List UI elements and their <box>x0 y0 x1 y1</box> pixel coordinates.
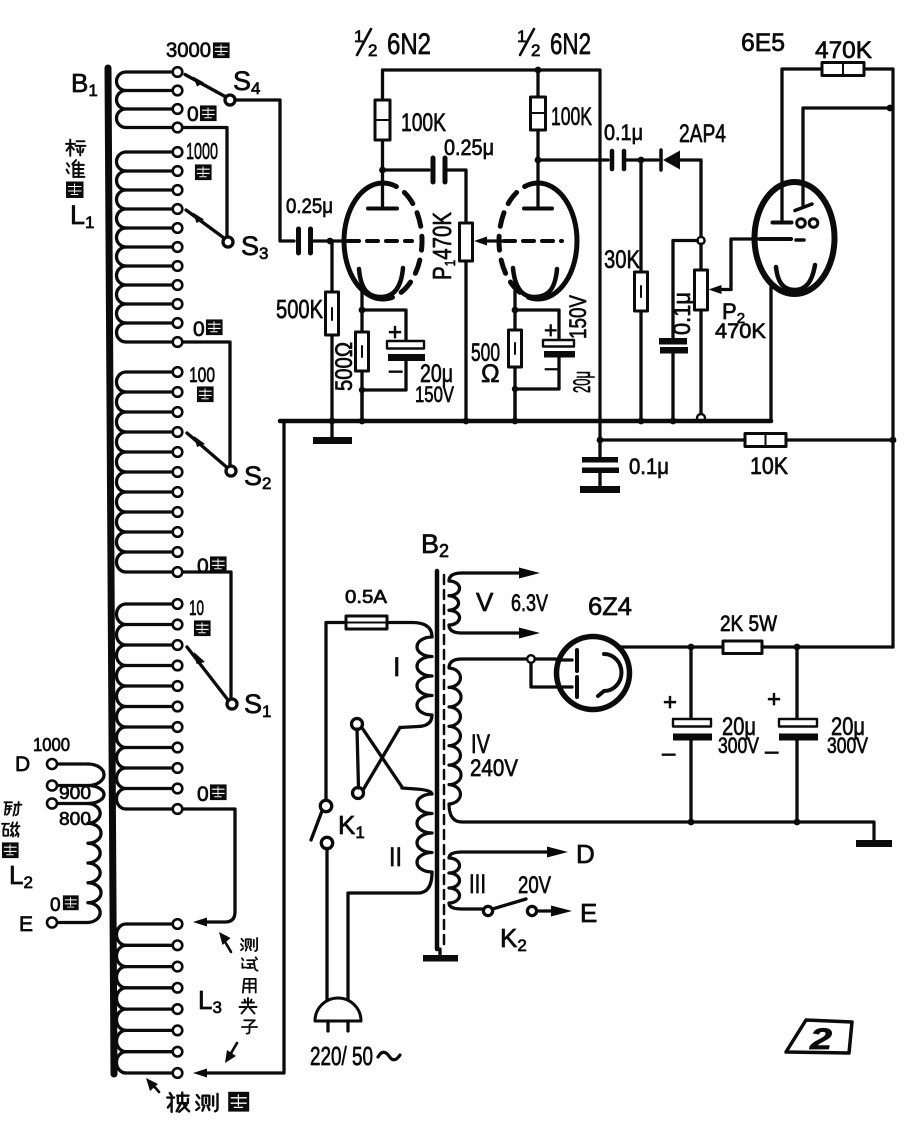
svg-text:0: 0 <box>197 555 209 578</box>
svg-text:I: I <box>393 652 401 682</box>
ground bus <box>280 419 771 424</box>
svg-text:0.25μ: 0.25μ <box>444 135 494 160</box>
resistor 500K grid leak <box>330 241 333 292</box>
voltage selector cross <box>352 719 363 730</box>
6E5 grid dashes <box>760 237 791 241</box>
decoupling node: 10K to B+ <box>600 438 745 441</box>
6E5 ray-control lead <box>803 108 890 205</box>
heater winding V <box>449 573 530 633</box>
capacitor 0.25u input <box>296 229 301 253</box>
svg-text:E: E <box>19 913 33 936</box>
coil L3 under test <box>126 922 173 925</box>
svg-text:6E5: 6E5 <box>741 29 785 57</box>
triode V1 half 6N2 <box>344 183 383 299</box>
test clip arrow lower <box>230 1043 237 1055</box>
resistor 30K <box>639 160 642 272</box>
V2 plate <box>524 207 552 211</box>
fuse 0.5A <box>346 616 387 629</box>
coil-under-test arrow <box>153 1085 159 1092</box>
V1 grid dashes <box>348 239 412 243</box>
svg-text:150V: 150V <box>565 295 592 339</box>
core of standard coil L1 <box>108 68 114 1074</box>
svg-text:6N2: 6N2 <box>550 28 591 61</box>
label excitation coil L2 <box>4 802 21 816</box>
6E5 cathode <box>776 265 815 290</box>
resistor 470K top <box>822 63 864 76</box>
svg-text:500Ω: 500Ω <box>331 342 358 391</box>
svg-text:500K: 500K <box>276 294 323 324</box>
svg-text:3000: 3000 <box>166 39 211 62</box>
svg-text:0.25μ: 0.25μ <box>286 195 333 218</box>
winding III 20V <box>449 852 558 909</box>
B+ rail top <box>383 70 601 440</box>
test clip wire from ground bus to L3 bottom <box>206 421 284 1073</box>
svg-text:0: 0 <box>187 103 199 126</box>
svg-text:100K: 100K <box>551 103 592 131</box>
6Z4 plates <box>557 658 572 661</box>
svg-text:–: – <box>389 357 403 384</box>
wire L1 1000-section end to S2 <box>183 342 230 466</box>
svg-text:1000: 1000 <box>33 735 70 755</box>
6Z4 cathode <box>598 654 621 696</box>
svg-text:2: 2 <box>809 1023 833 1056</box>
test clip arrow upper <box>224 940 231 952</box>
svg-text:0.1μ: 0.1μ <box>669 292 696 335</box>
svg-text:0: 0 <box>193 318 205 341</box>
wire L1 3000-section end to S3 <box>183 128 227 238</box>
label standard coil L1 <box>66 140 85 156</box>
6Z4 cathode lead to filter <box>617 645 691 648</box>
svg-text:+: + <box>767 686 781 713</box>
node after diode <box>697 237 704 244</box>
svg-text:+: + <box>544 317 557 343</box>
coil L1 section 1000-turns <box>126 150 173 153</box>
HT winding IV <box>449 659 874 840</box>
6E5 target electrodes <box>797 219 806 228</box>
node grid V1 <box>327 238 334 245</box>
svg-text:150V: 150V <box>415 382 454 407</box>
svg-text:–: – <box>662 740 676 767</box>
wire S4 to input cap <box>235 100 294 241</box>
capacitor 20u 150V cathode bypass V2 <box>515 310 559 340</box>
diode 2AP4 <box>659 150 663 170</box>
V2 grid dashes <box>504 239 562 243</box>
switch S4 <box>185 75 226 98</box>
svg-text:0: 0 <box>50 895 61 916</box>
svg-text:6N2: 6N2 <box>387 28 431 61</box>
test clip wire from L1 end to L3 top <box>183 809 235 922</box>
svg-text:III: III <box>469 869 486 899</box>
mains plug <box>315 998 361 1021</box>
svg-text:800: 800 <box>59 809 91 829</box>
V2 cathode <box>513 268 557 297</box>
svg-text:+: + <box>663 689 677 716</box>
svg-text:300V: 300V <box>718 733 759 758</box>
capacitor 0.1u coupling <box>538 158 608 161</box>
right B+ rail <box>864 69 893 647</box>
svg-text:0.5A: 0.5A <box>345 587 387 607</box>
coil L1 section 100-turns <box>126 370 173 373</box>
svg-text:E: E <box>580 898 597 928</box>
svg-text:2AP4: 2AP4 <box>679 120 726 148</box>
svg-text:0.1μ: 0.1μ <box>629 454 669 479</box>
svg-text:220/ 50: 220/ 50 <box>310 1041 373 1071</box>
svg-text:6Z4: 6Z4 <box>588 593 632 621</box>
svg-text:300V: 300V <box>827 733 868 758</box>
svg-text:–: – <box>545 354 558 380</box>
svg-text:1000: 1000 <box>186 138 218 164</box>
6E5 plate lead <box>782 69 822 220</box>
resistor 2K 5W <box>691 645 723 648</box>
capacitor 0.1u filter <box>673 241 698 339</box>
svg-text:+: + <box>388 319 402 346</box>
svg-text:2: 2 <box>531 41 540 60</box>
primary winding II <box>348 788 432 999</box>
svg-text:470K: 470K <box>815 37 872 64</box>
coil L1 section 10-turns <box>126 602 173 605</box>
svg-text:2: 2 <box>368 41 377 60</box>
resistor 100K plate V2 <box>536 130 539 160</box>
V1 cathode <box>359 268 403 297</box>
node detector input <box>638 157 645 164</box>
resistor 500 ohm cathode V2 <box>513 310 516 330</box>
svg-text:20μ: 20μ <box>569 371 596 393</box>
resistor 500 ohm cathode V1 <box>360 310 363 332</box>
label test clips vertical <box>241 938 257 951</box>
svg-text:20V: 20V <box>518 872 551 899</box>
svg-text:D: D <box>576 839 595 869</box>
svg-text:0.1μ: 0.1μ <box>604 120 643 145</box>
tube 6E5 <box>755 182 835 294</box>
svg-text:D: D <box>15 753 30 776</box>
potentiometer P1 470K <box>460 223 473 261</box>
switch S2 <box>187 433 227 468</box>
svg-text:II: II <box>389 842 402 872</box>
svg-text:2K 5W: 2K 5W <box>720 611 777 636</box>
svg-text:100K: 100K <box>401 109 446 137</box>
svg-text:10: 10 <box>189 597 204 620</box>
svg-text:100: 100 <box>189 364 215 387</box>
svg-text:240V: 240V <box>470 755 518 782</box>
excitation coil L2 <box>57 762 88 765</box>
capacitor 20u 300V second <box>795 647 798 719</box>
svg-text:Ω: Ω <box>481 360 500 388</box>
capacitor 20u 150V cathode bypass V1 <box>362 310 406 341</box>
ground symbol main <box>330 421 333 438</box>
svg-text:900: 900 <box>59 783 91 803</box>
switch K2 <box>483 906 492 915</box>
svg-text:470K: 470K <box>715 320 766 343</box>
ground symbol PSU <box>856 840 892 847</box>
P2 wiper to 6E5 grid <box>731 239 758 290</box>
capacitor 0.25u interstage <box>383 168 430 171</box>
svg-text:0: 0 <box>197 783 209 806</box>
switch S1 <box>187 647 228 700</box>
transformer B2 core <box>435 571 440 949</box>
capacitor 0.1u decoupling <box>598 440 601 457</box>
primary winding I <box>387 623 432 728</box>
wire IV to 6Z4 plates <box>535 657 556 660</box>
label coil under test <box>167 1093 189 1112</box>
tube 6Z4 <box>557 637 630 710</box>
svg-text:V: V <box>476 587 494 617</box>
V1 plate <box>368 207 397 211</box>
coil L1 section 3000-turns <box>126 70 173 73</box>
svg-text:10K: 10K <box>750 453 788 480</box>
node V1 plate <box>379 167 386 174</box>
triode V2 half 6N2 <box>538 183 577 299</box>
potentiometer P2 470K <box>699 244 702 270</box>
capacitor 20u 300V first <box>689 647 692 719</box>
page number 2 <box>786 1020 852 1053</box>
svg-text:P1470K: P1470K <box>427 211 459 280</box>
wire L1 100-section end to S1 <box>183 572 231 699</box>
svg-text:6.3V: 6.3V <box>511 590 548 617</box>
svg-text:30K: 30K <box>604 246 640 274</box>
resistor 100K plate V1 <box>381 140 384 170</box>
svg-text:–: – <box>765 738 779 765</box>
mains switch K1 <box>326 623 346 800</box>
switch S3 <box>186 210 224 238</box>
